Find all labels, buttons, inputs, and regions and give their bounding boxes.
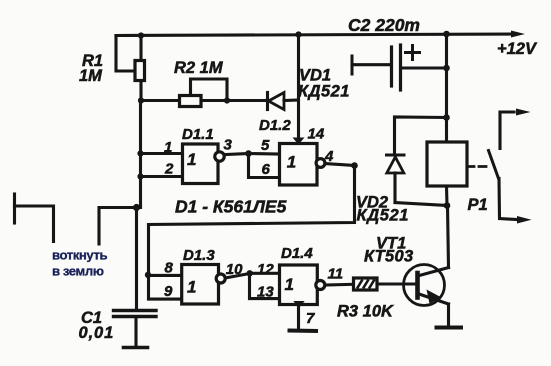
svg-text:1: 1 — [164, 139, 172, 156]
svg-text:12: 12 — [257, 261, 274, 278]
svg-text:+12V: +12V — [497, 40, 538, 58]
svg-text:6: 6 — [262, 161, 271, 178]
svg-text:КД521: КД521 — [357, 207, 410, 225]
svg-text:D1.2: D1.2 — [259, 117, 291, 134]
svg-text:1: 1 — [287, 153, 296, 172]
svg-text:5: 5 — [261, 137, 270, 154]
svg-text:D1 - К561ЛЕ5: D1 - К561ЛЕ5 — [175, 197, 287, 217]
svg-text:1: 1 — [187, 150, 196, 169]
svg-text:D1.1: D1.1 — [182, 126, 214, 143]
svg-text:2: 2 — [164, 161, 174, 178]
svg-text:8: 8 — [165, 260, 174, 277]
svg-text:4: 4 — [324, 148, 334, 165]
svg-text:КТ503: КТ503 — [364, 248, 413, 266]
svg-text:в землю: в землю — [52, 264, 104, 279]
svg-text:R2 1M: R2 1M — [174, 59, 224, 77]
svg-text:14: 14 — [308, 126, 325, 143]
svg-text:1M: 1M — [79, 67, 103, 85]
svg-text:КД521: КД521 — [298, 83, 350, 101]
svg-text:3: 3 — [224, 137, 233, 154]
svg-text:P1: P1 — [468, 196, 488, 214]
svg-text:R3 10K: R3 10K — [337, 303, 394, 321]
svg-text:10: 10 — [226, 261, 243, 278]
svg-text:11: 11 — [328, 266, 344, 283]
svg-text:1: 1 — [285, 275, 294, 294]
svg-text:C2 220m: C2 220m — [348, 15, 420, 35]
svg-text:1: 1 — [187, 278, 196, 297]
svg-text:9: 9 — [164, 283, 173, 300]
svg-text:7: 7 — [306, 310, 315, 327]
svg-text:0,01: 0,01 — [79, 324, 115, 342]
svg-text:D1.4: D1.4 — [281, 245, 313, 262]
svg-text:D1.3: D1.3 — [183, 247, 215, 264]
svg-text:воткнуть: воткнуть — [52, 248, 107, 263]
svg-text:13: 13 — [257, 284, 274, 301]
